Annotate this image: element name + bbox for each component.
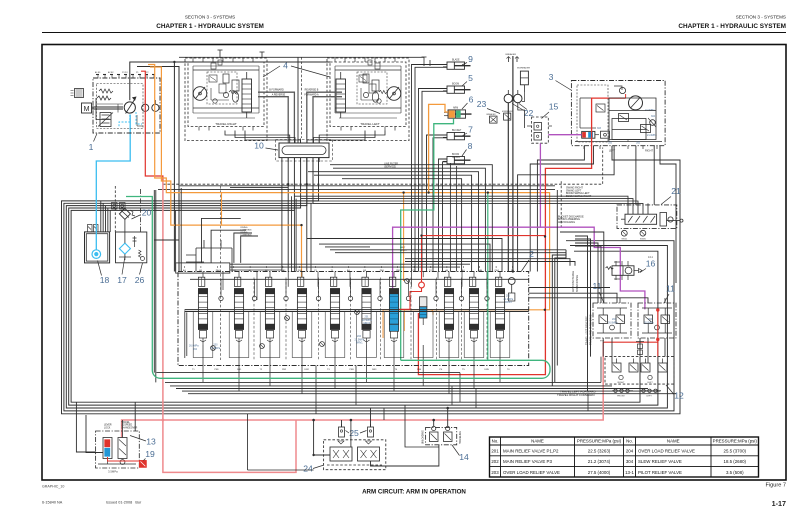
label 17 [117, 256, 127, 285]
wire purple pilot from 15 to arm spool [393, 143, 541, 293]
svg-text:202: 202 [491, 459, 499, 464]
label 21 [661, 186, 681, 205]
svg-text:22: 22 [524, 108, 534, 118]
swivel joint 10 [276, 139, 333, 163]
svg-text:1-17: 1-17 [772, 499, 786, 508]
svg-text:13-1: 13-1 [625, 470, 634, 475]
svg-text:BREAKER: BREAKER [506, 53, 517, 56]
travel right spool [198, 277, 207, 345]
wire purple pilot to valve 16 and 11 [540, 227, 645, 309]
svg-text:PRESSURE:MPa (psi): PRESSURE:MPa (psi) [713, 438, 758, 443]
wire bank bottom drops [203, 345, 500, 414]
svg-text:ARM DISCHARGE: ARM DISCHARGE [572, 271, 575, 292]
pump port row labels [96, 74, 155, 76]
label 22 [512, 104, 533, 119]
wire bottom mid feeds [248, 405, 439, 470]
wire P3 orange riser B [150, 67, 302, 277]
svg-text:NAME: NAME [667, 438, 680, 443]
svg-text:ARM DIGGING: ARM DIGGING [558, 221, 575, 224]
swing motor circle [614, 86, 643, 110]
wire travel box downlinks right [307, 131, 385, 144]
joystick unit 24 (dashed box) [324, 440, 386, 470]
svg-text:15: 15 [549, 102, 559, 112]
valve bank bottom port ticks [192, 369, 510, 371]
dozer cylinder 8 [443, 154, 471, 164]
function text stack [558, 216, 584, 224]
svg-text:RIGHT: RIGHT [400, 250, 407, 252]
pressure reducing valves 25 [339, 424, 374, 437]
wire return bundle to tank (nested loop) [62, 146, 681, 414]
svg-text:21: 21 [671, 186, 681, 196]
wire right side verticals to 11 and 12 [552, 190, 604, 391]
svg-text:SECTION 3 - SYSTEMS: SECTION 3 - SYSTEMS [736, 15, 786, 20]
svg-text:NAME: NAME [531, 438, 544, 443]
swing inner dashed box [577, 85, 608, 142]
wire purple to swing brake [548, 134, 581, 136]
svg-text:LEVER: LEVER [104, 425, 112, 427]
wire stub toward tank top [230, 187, 288, 189]
svg-text:BUCKET: BUCKET [452, 130, 462, 132]
svg-text:MAIN RELIEF VALVE P3: MAIN RELIEF VALVE P3 [503, 459, 552, 464]
pump regulator block [98, 113, 113, 127]
wire pink pilot vertical [163, 181, 296, 472]
wire bank main gallery (double) [185, 310, 529, 312]
wire short feeds near cylinder 8 [450, 163, 456, 272]
wire stair network above bank left [154, 218, 258, 273]
cushion valve 11 left [593, 303, 631, 343]
svg-text:RIGHT: RIGHT [645, 149, 653, 153]
wire travel box downlinks left [225, 131, 301, 144]
label 13 [130, 436, 156, 447]
wire swing red supply [418, 98, 625, 375]
svg-text:21.2 (3074): 21.2 (3074) [588, 459, 611, 464]
svg-text:27.5MPa: 27.5MPa [211, 347, 221, 350]
wire travel crossover lines [258, 92, 342, 138]
auxiliary spool [330, 277, 339, 345]
svg-text:11: 11 [593, 281, 602, 291]
svg-text:SLEW RELIEF VALVE: SLEW RELIEF VALVE [638, 459, 682, 464]
label 4 with leaders [263, 61, 330, 78]
wire pump delivery bus 2 [137, 67, 179, 272]
pump case lines [97, 104, 144, 126]
bank internal dashed separators [254, 278, 487, 361]
label 5 [462, 73, 473, 86]
wire cushion to anti-drift links [603, 338, 665, 363]
svg-text:6: 6 [469, 95, 474, 105]
wire bank internal verticals [203, 272, 500, 301]
wire pilot bus below divider [180, 185, 555, 187]
label 12 [666, 385, 684, 401]
swing pilot shuttle [601, 131, 610, 138]
wire pump P1 line (dark) [130, 62, 175, 272]
svg-text:UNLOADING: UNLOADING [421, 430, 424, 444]
svg-text:LEFT: LEFT [646, 395, 652, 397]
swing lower bus [575, 135, 662, 142]
swing command text stack [566, 187, 592, 198]
label 15 [542, 102, 559, 119]
svg-text:16: 16 [646, 259, 656, 269]
svg-text:RIGHT: RIGHT [618, 382, 625, 384]
rotated labels near 14 [421, 430, 462, 444]
spool function text stack [241, 227, 252, 236]
regulator pilot dashed (cyan) [119, 112, 142, 127]
label 20 [132, 208, 152, 220]
svg-text:A2 B2: A2 B2 [108, 71, 114, 74]
bucket cylinder 5 [443, 83, 471, 93]
dashed boundary vertical bank [220, 186, 222, 360]
wire swivel columns down to bank [294, 158, 306, 272]
label 24 [303, 464, 324, 474]
svg-text:204: 204 [626, 449, 634, 454]
wire orange drop to arm section [403, 193, 405, 281]
wire feeds into 21 (long runs from swivel) [294, 196, 648, 214]
svg-text:8: 8 [468, 141, 473, 151]
wire green secondary vertical [487, 193, 489, 361]
center feed chain between 11 and 12 [636, 338, 644, 357]
svg-text:BOOM: BOOM [452, 154, 459, 156]
wire P3 orange riser A [148, 65, 550, 310]
svg-text:REVERSE B: REVERSE B [305, 89, 319, 92]
svg-text:Figure 7: Figure 7 [765, 483, 786, 489]
wire red pilot drop to arm spool [421, 236, 423, 282]
spare spool [495, 277, 504, 345]
svg-text:SW21: SW21 [621, 239, 628, 241]
svg-text:19: 19 [145, 449, 155, 459]
svg-text:CHAPTER 1 - HYDRAULIC SYSTEM: CHAPTER 1 - HYDRAULIC SYSTEM [156, 23, 264, 30]
svg-text:22.5 (3263): 22.5 (3263) [588, 449, 611, 454]
wire red pilot into arm spool [399, 288, 421, 309]
label 2 [522, 249, 535, 271]
dashed boundary vertical mid [560, 181, 562, 226]
svg-text:No.: No. [626, 438, 633, 443]
solenoid terminals below 12 [612, 389, 661, 397]
arm cylinder 6 (highlighted) [444, 106, 472, 118]
label 8 [462, 141, 473, 156]
wire green return U-loop [126, 197, 550, 379]
red pilot check circle [419, 282, 425, 288]
wire pilot supply (pink highlighted) [122, 342, 604, 437]
svg-text:PRESSURE:MPa (psi): PRESSURE:MPa (psi) [577, 438, 622, 443]
svg-text:20: 20 [142, 208, 152, 218]
valve section sub-frames [193, 312, 510, 358]
svg-text:13: 13 [146, 437, 156, 447]
wire cylinder 5 lines [419, 89, 448, 272]
svg-text:24: 24 [303, 464, 313, 474]
swing cylinder 7 [443, 130, 471, 140]
label 19 [144, 449, 155, 461]
pilot manifold 13 (dash-dot box) [96, 431, 140, 468]
wire cylinder 8 lines [439, 159, 448, 272]
swing brake valve (red blue) [582, 131, 599, 138]
label 23 [477, 99, 500, 114]
label 25 [346, 428, 367, 438]
selector valves 22 [504, 90, 522, 103]
svg-text:26: 26 [135, 275, 145, 285]
line filter note [384, 163, 398, 169]
pump inner dashed box [97, 84, 144, 129]
boom swing spool [234, 277, 243, 345]
svg-text:PILOT RELIEF VALVE: PILOT RELIEF VALVE [638, 470, 682, 475]
hydraulic tank 18 [85, 225, 110, 263]
wire swivel extra column [281, 158, 283, 272]
swing pressure labels [597, 109, 657, 145]
wire breaker drop lines [508, 56, 524, 272]
svg-text:SWING: SWING [452, 157, 460, 159]
wire cylinder 7 lines [427, 135, 448, 272]
label 7 [462, 125, 473, 137]
wire swivel continuation columns [292, 196, 312, 271]
return filter 17 box [116, 219, 147, 262]
selector unit 21 (dash-dot box) [617, 205, 683, 229]
svg-text:No.: No. [492, 438, 499, 443]
pilot manifold labels [104, 421, 138, 474]
svg-text:3: 3 [549, 72, 554, 82]
travel forward/reverse labels [269, 89, 319, 97]
page header left [156, 15, 264, 31]
wire feeds between travel boxes [298, 57, 302, 143]
label 9 [462, 54, 473, 65]
travel motor right (item 4) [185, 58, 267, 141]
wire swing drain drops [518, 146, 676, 283]
wire red to swing valve top [625, 94, 627, 98]
pump assembly 1 (dash-dot box) [93, 78, 160, 133]
label 11 left [593, 281, 604, 303]
swing motor assembly 3 (dash-dot box) [571, 81, 665, 146]
svg-text:LOCK: LOCK [104, 427, 111, 429]
svg-text:MRV3: MRV3 [505, 301, 512, 304]
wire suction line (cyan) pump to tank [96, 115, 130, 250]
svg-text:26.0MPa: 26.0MPa [644, 321, 654, 324]
machine boundary dashed divider [163, 148, 603, 185]
svg-text:18: 18 [100, 275, 110, 285]
svg-text:BLADE: BLADE [452, 58, 460, 61]
svg-text:LEFT: LEFT [609, 149, 616, 153]
wire arm cylinder pressure line (orange) [429, 104, 448, 192]
label 6 [462, 95, 474, 109]
pilot unit 15 (dashed box) [527, 117, 552, 143]
svg-text:A1 B1: A1 B1 [95, 71, 101, 74]
dashed boundary vertical left [114, 186, 116, 232]
wire red inside 11 right [657, 310, 659, 357]
motor shaft [92, 107, 124, 109]
label 18 [98, 261, 110, 286]
svg-text:MRV2: MRV2 [364, 322, 371, 325]
svg-text:14: 14 [459, 452, 469, 462]
svg-text:TRAVELING: TRAVELING [459, 431, 462, 444]
gear pump P3 [142, 100, 149, 111]
bank pressure annotations [189, 295, 654, 351]
svg-text:6-15840 NA: 6-15840 NA [42, 501, 63, 505]
svg-text:DR5: DR5 [485, 369, 490, 371]
svg-text:26.0MPa: 26.0MPa [608, 321, 618, 324]
svg-text:5: 5 [468, 73, 473, 83]
bucket spool [444, 277, 453, 345]
gear pump P4 [152, 100, 159, 111]
svg-text:ARM: ARM [453, 106, 458, 109]
wire red bottom loop [603, 341, 658, 343]
wire bank bottom horizontals [156, 373, 676, 394]
svg-text:BOOM RISING: BOOM RISING [576, 275, 579, 292]
svg-text:BOOM: BOOM [452, 83, 459, 85]
wire red inside pilot box [108, 457, 140, 461]
tank top pump glyphs [112, 203, 126, 210]
travel motor left (item 4) [327, 58, 409, 141]
main relief valve 201 [508, 278, 515, 301]
wire left feeds to bank [154, 188, 181, 382]
svg-text:304: 304 [626, 459, 634, 464]
svg-text:11: 11 [666, 284, 675, 294]
svg-text:MRV1: MRV1 [356, 342, 363, 345]
left right pilot text [400, 247, 407, 252]
header rule [42, 32, 786, 34]
svg-text:303: 303 [597, 127, 602, 130]
suction filter (cyan) in tank [92, 250, 101, 259]
svg-text:12: 12 [674, 391, 684, 401]
wire swivel column to valve bank [287, 158, 289, 272]
label 26 [135, 263, 145, 285]
svg-text:A REVERSE: A REVERSE [272, 93, 286, 96]
svg-text:DR1: DR1 [237, 369, 242, 371]
pump case drain line [96, 98, 111, 120]
wire bank left port block [186, 240, 232, 272]
label 11 right [664, 284, 675, 304]
cushion valve 11 right [638, 303, 676, 338]
svg-text:SECTION 3 - SYSTEMS: SECTION 3 - SYSTEMS [185, 15, 235, 20]
wire second bus below divider [158, 189, 555, 191]
main pump circle [124, 97, 136, 114]
svg-text:FRONT: FRONT [617, 395, 625, 397]
svg-text:25.5 (3700): 25.5 (3700) [724, 449, 747, 454]
power grid symbol [71, 89, 84, 98]
svg-text:2: 2 [529, 249, 534, 259]
wire stair network above bank center [230, 239, 575, 272]
pilot relief 19 (red solenoid) [140, 461, 147, 468]
wire tank risers [101, 201, 110, 232]
arm check valve (highlighted blue) [420, 297, 427, 325]
page header right [678, 15, 786, 31]
label 10 [254, 141, 278, 151]
svg-text:17: 17 [117, 275, 127, 285]
svg-text:DR3: DR3 [372, 369, 377, 371]
boom cylinder 9 [443, 58, 471, 69]
wire swing internal frame [609, 98, 656, 140]
svg-text:7: 7 [468, 125, 473, 135]
swing relief valves [612, 114, 651, 140]
svg-text:MAIN RELIEF VALVE P1,P2: MAIN RELIEF VALVE P1,P2 [503, 449, 559, 454]
svg-text:3.5MPa: 3.5MPa [108, 470, 118, 474]
svg-text:27.5 (4000): 27.5 (4000) [588, 470, 611, 475]
solenoid block 14 (dash-dot box) [426, 426, 457, 444]
swing shuttle extras [580, 98, 656, 128]
rotated route labels [572, 271, 592, 345]
svg-text:304: 304 [651, 115, 656, 118]
label 14 [452, 445, 469, 462]
svg-text:CHAPTER 1 - HYDRAULIC SYSTEM: CHAPTER 1 - HYDRAULIC SYSTEM [678, 23, 786, 30]
svg-text:OVER LOAD RELIEF VALVE: OVER LOAD RELIEF VALVE [503, 470, 560, 475]
wire feeds joystick [312, 408, 439, 466]
arm spool blue extension [389, 324, 398, 331]
breaker port symbol [506, 53, 531, 101]
svg-text:M: M [84, 106, 90, 113]
svg-text:10: 10 [254, 141, 264, 151]
wire travel box top bus [174, 57, 424, 62]
regulator spring [97, 96, 111, 100]
svg-text:LEFT: LEFT [400, 247, 406, 249]
label 3 [549, 72, 571, 90]
anti-drift valve 12 (dashed box) [605, 357, 674, 385]
wire horizontal bundle cylinders to bank [308, 165, 492, 272]
svg-text:Issued 01-2008 Bur: Issued 01-2008 Bur [106, 501, 142, 505]
wire pilot pump line (red then pink) [141, 71, 163, 182]
wire bank to cushion valves [529, 288, 665, 304]
wire red pilot upper run [422, 235, 546, 237]
dozer spool [265, 277, 274, 345]
wire orange relief branches [383, 310, 433, 338]
svg-text:P3 P4: P3 P4 [122, 72, 128, 74]
svg-text:TRAVEL LEFT: TRAVEL LEFT [360, 122, 380, 126]
wire bank left wall [185, 311, 187, 359]
svg-text:305: 305 [636, 142, 641, 145]
svg-text:GRAPHIC_10: GRAPHIC_10 [42, 485, 64, 489]
wire feeds 14 [162, 407, 450, 427]
svg-text:W.BREAKER: W.BREAKER [517, 67, 530, 70]
relief valve circles in bank [211, 279, 410, 351]
drawing frame [42, 45, 786, 481]
label 1 [89, 134, 97, 153]
label 16 [640, 259, 655, 273]
svg-text:FORWARD A: FORWARD A [304, 93, 319, 96]
svg-text:LOWERING: LOWERING [241, 234, 252, 236]
svg-text:LEFT: LEFT [647, 382, 653, 384]
regulator spring second [99, 89, 113, 93]
arm spool (highlighted) [389, 277, 398, 345]
filter 20 [119, 208, 135, 219]
solenoid valve 16 [606, 256, 654, 279]
svg-text:203: 203 [491, 470, 499, 475]
travel left spool [297, 277, 306, 345]
wire arm cylinder return line (green) [401, 118, 454, 360]
svg-text:305: 305 [608, 142, 613, 145]
swing spool [469, 277, 478, 345]
port symbols above travel boxes [218, 50, 431, 66]
svg-text:SW20: SW20 [640, 239, 647, 241]
svg-text:B FORWARD: B FORWARD [269, 89, 284, 92]
wire right risers from drain bundle [588, 357, 601, 411]
wire cylinder 9 lines [412, 65, 448, 272]
valve 26 spring element [133, 236, 137, 247]
wire bank upper gallery [190, 278, 529, 280]
valve 16 port ticks [616, 261, 628, 280]
pump top port stubs [95, 71, 154, 78]
svg-text:OVER LOAD RELIEF VALVE: OVER LOAD RELIEF VALVE [638, 449, 695, 454]
dash-dot boundary near filter [140, 189, 142, 232]
svg-text:3.5 (508): 3.5 (508) [726, 470, 744, 475]
boom spool [362, 277, 371, 345]
wire left pilot feed to box 13 [76, 402, 95, 452]
travel forward text [557, 389, 596, 397]
svg-text:9: 9 [468, 54, 473, 64]
load check valves between sections [219, 279, 489, 300]
svg-text:204: 204 [193, 348, 198, 351]
main control valve 2 (dash-dot border) [178, 272, 529, 366]
selector solenoids below 21 [621, 230, 646, 240]
swing port ticks and labels [584, 146, 657, 153]
wire feeds into 13 [86, 402, 135, 452]
svg-text:DR2: DR2 [305, 369, 310, 371]
valve bank top port ticks [183, 266, 514, 272]
svg-text:ARM CIRCUIT: ARM IN OPERATION: ARM CIRCUIT: ARM IN OPERATION [362, 489, 466, 496]
svg-text:201: 201 [491, 449, 499, 454]
